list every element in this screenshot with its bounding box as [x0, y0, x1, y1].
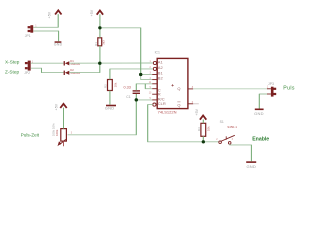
svg-text:GND: GND: [247, 164, 257, 169]
pin numbers left: [149, 61, 152, 100]
switch S1: [216, 120, 237, 144]
resistor R1: [94, 38, 106, 46]
svg-text:JP3: JP3: [268, 82, 274, 86]
wire JP1 pin2 to GND: [33, 31, 58, 41]
svg-text:Q: Q: [177, 86, 180, 91]
svg-text:1N4004: 1N4004: [70, 62, 80, 66]
connector JP2: [25, 60, 34, 70]
wire RC node down and left to trimmer wiper: [68, 100, 137, 135]
svg-text:Z-Step: Z-Step: [5, 69, 19, 74]
svg-text:+5V: +5V: [48, 11, 52, 18]
wire R2 bottom to GND: [109, 91, 111, 105]
wire JP2 pin1 to D1: [31, 62, 64, 64]
junction enable node: [202, 140, 205, 143]
pin Qbar stub: [188, 103, 193, 105]
svg-text:B2: B2: [158, 76, 164, 81]
svg-text:Puls-Zeit: Puls-Zeit: [21, 132, 40, 137]
wire JP2 pin2 to D2: [31, 68, 64, 72]
wire vertical overlays: [42, 14, 260, 161]
svg-text:0.33: 0.33: [124, 85, 131, 89]
junction RC node: [135, 98, 138, 101]
pin A1 bubble: [153, 61, 156, 64]
supply +5V arrow (top-middle): [97, 11, 103, 15]
svg-text:GND: GND: [54, 42, 63, 46]
svg-text:100k: 100k: [55, 129, 59, 136]
svg-text:+5V: +5V: [195, 108, 199, 115]
diode D2: [64, 68, 81, 75]
wire branch to pin R: [145, 84, 152, 89]
wire switch to GND: [230, 144, 252, 161]
svg-text:+5V: +5V: [90, 9, 94, 16]
wire B2: [141, 75, 153, 80]
wire D1 out to junction and IC A1: [69, 62, 153, 64]
svg-text:R4: R4: [197, 127, 201, 131]
wire R4 bottom to junction: [202, 136, 204, 142]
svg-text:R2: R2: [103, 84, 107, 88]
ground GND (below JP1): [54, 41, 63, 46]
pin stubs left: [152, 75, 157, 100]
svg-text:A2: A2: [158, 65, 164, 70]
wire D2 out up to junction: [69, 63, 100, 72]
wire B1: [141, 74, 153, 76]
wire Q to JP3: [193, 88, 267, 90]
wire +5V branch to B1/B2: [100, 28, 141, 75]
junction at +5V branch: [98, 26, 101, 29]
wire +5V stem down to R1: [99, 14, 101, 37]
svg-text:10k: 10k: [207, 126, 211, 131]
svg-text:9450-1: 9450-1: [227, 125, 237, 129]
svg-text:10k: 10k: [114, 82, 118, 87]
svg-text:Enable: Enable: [252, 136, 269, 142]
wire C1 top to pins C and R: [136, 84, 152, 90]
pin CLR bubble: [153, 103, 156, 106]
ground GND (below JP3): [254, 109, 264, 117]
trimmer R3: [52, 123, 73, 146]
capacitor C1: [124, 85, 141, 99]
svg-text:Q: Q: [177, 102, 180, 107]
connector JP3: [267, 85, 276, 96]
svg-text:JP2: JP2: [24, 71, 30, 75]
svg-text:S1: S1: [220, 120, 224, 124]
wire JP1 pin1 to +5V riser: [33, 14, 58, 27]
wire R1 bottom to diode junction: [99, 46, 101, 63]
diode D1: [64, 59, 81, 66]
pin numbers right: [192, 87, 194, 104]
wire R2 top to IC A2: [110, 69, 153, 80]
svg-text:3k3: 3k3: [102, 40, 106, 45]
pin labels inside: [158, 59, 181, 107]
svg-text:X-Step: X-Step: [5, 60, 20, 65]
wire C1 bottom to RC junction: [136, 94, 152, 100]
resistor R4: [197, 123, 210, 136]
supply +5V arrow (above R4): [200, 116, 206, 120]
connector JP1: [28, 24, 38, 32]
svg-text:IC1: IC1: [155, 50, 160, 54]
svg-text:74LS122N: 74LS122N: [158, 110, 177, 115]
supply +5V arrow (above trimmer R3): [60, 104, 66, 108]
svg-text:A1: A1: [158, 59, 164, 64]
svg-text:JP1: JP1: [25, 34, 31, 38]
pin Q stub: [188, 88, 193, 90]
svg-text:+5V: +5V: [55, 103, 59, 110]
wire JP3 pin2 to GND: [259, 94, 267, 109]
junction diode-OR node: [98, 62, 101, 65]
svg-text:R1: R1: [94, 42, 98, 46]
wire +5V stem to R4 top: [202, 120, 204, 124]
svg-text:Puls: Puls: [283, 85, 295, 91]
IC U1 74LS122 box: [155, 50, 188, 114]
svg-text:CLR: CLR: [158, 101, 166, 106]
svg-text:C1: C1: [126, 95, 130, 99]
pin A2 bubble: [153, 67, 156, 70]
wire +5V stem to trimmer top: [63, 108, 65, 129]
svg-text:GND: GND: [105, 106, 115, 111]
supply +5V arrow (top-left): [55, 10, 61, 14]
ground GND (below R2): [105, 105, 116, 111]
wire junction to switch: [203, 141, 218, 143]
wire CLR to enable row: [148, 105, 204, 142]
svg-text:GND: GND: [254, 111, 264, 116]
ground GND (below switch): [246, 161, 256, 169]
junction dots redraw: [98, 26, 205, 143]
junction B1: [139, 73, 142, 76]
resistor R2: [103, 80, 117, 91]
